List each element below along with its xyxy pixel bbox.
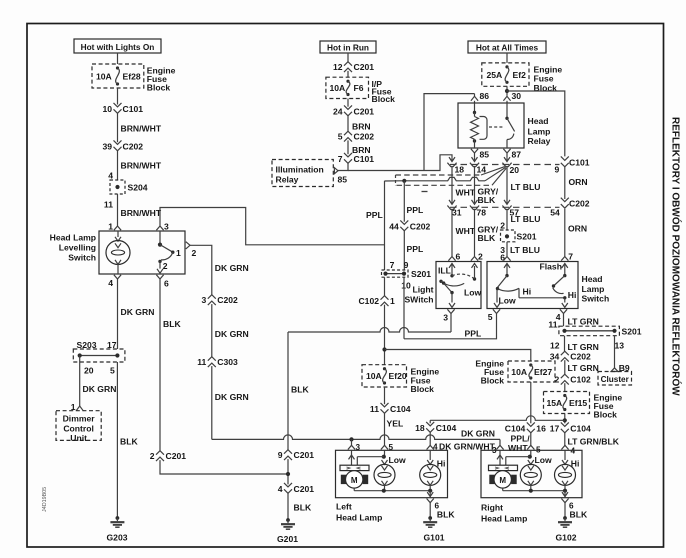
wire BLK <box>160 279 181 451</box>
wire <box>475 153 508 158</box>
pin 87 relay <box>503 149 521 160</box>
svg-text:Control: Control <box>63 423 94 433</box>
svg-text:C104: C104 <box>505 423 526 433</box>
svg-text:G102: G102 <box>555 532 576 542</box>
power tag Hot in Run <box>320 41 376 53</box>
svg-text:Hot at All Times: Hot at All Times <box>476 42 539 52</box>
pin 18 arrow <box>447 157 464 175</box>
connector C201 pin 12 <box>333 62 374 72</box>
splice S201 on LT BLU <box>500 221 537 256</box>
svg-text:Low: Low <box>499 296 516 306</box>
svg-text:4: 4 <box>278 484 283 494</box>
svg-text:BLK: BLK <box>570 509 588 519</box>
svg-text:Ef27: Ef27 <box>534 367 552 377</box>
svg-text:4: 4 <box>108 171 113 181</box>
svg-text:LT BLU: LT BLU <box>511 182 541 192</box>
wire PPL HLS pin 5 <box>404 314 497 339</box>
svg-text:G101: G101 <box>423 532 444 542</box>
fuse Ef20 10A <box>362 365 407 387</box>
cluster box <box>598 372 632 386</box>
svg-text:Lamp: Lamp <box>528 127 551 137</box>
head lamp levelling switch box <box>99 231 185 274</box>
svg-text:LT GRN: LT GRN <box>568 317 599 327</box>
label Right Head Lamp <box>481 502 527 523</box>
svg-text:LT GRN/BLK: LT GRN/BLK <box>568 436 620 446</box>
wire <box>160 208 385 245</box>
svg-text:C102: C102 <box>570 374 591 384</box>
svg-text:31: 31 <box>452 208 462 218</box>
svg-text:Low: Low <box>464 288 481 298</box>
pin 1 head lamp levelling switch <box>108 222 121 232</box>
svg-text:12: 12 <box>333 62 343 72</box>
wire <box>160 460 288 474</box>
pin B9 triangle <box>611 363 630 373</box>
pin 3 entry <box>156 222 169 232</box>
wire BLK to G203 <box>117 362 138 518</box>
wire BLK from light switch <box>288 332 309 450</box>
svg-text:BLK: BLK <box>120 437 138 447</box>
right head lamp box <box>481 450 582 497</box>
connector C104 pin 11 <box>370 403 411 414</box>
svg-text:SWitch: SWitch <box>404 295 433 305</box>
svg-text:3: 3 <box>164 222 169 232</box>
connector row C202 dashed <box>450 206 560 208</box>
wire <box>347 53 349 63</box>
svg-text:Hot in Run: Hot in Run <box>327 42 369 52</box>
svg-text:15A: 15A <box>547 398 563 408</box>
wire PPL/WHT <box>508 432 541 454</box>
svg-text:C104: C104 <box>390 404 411 414</box>
svg-text:85: 85 <box>338 174 348 184</box>
pin 5 left head lamp <box>381 443 394 452</box>
ground G102 <box>555 516 576 542</box>
wire LT GRN <box>565 360 599 374</box>
minus mark <box>422 191 428 193</box>
right levelling motor <box>489 450 518 490</box>
pin 4 exit <box>108 275 121 288</box>
svg-text:ORN: ORN <box>569 177 588 187</box>
svg-text:Block: Block <box>147 83 171 93</box>
svg-text:LT GRN: LT GRN <box>568 363 599 373</box>
svg-text:3: 3 <box>443 312 448 322</box>
svg-text:1: 1 <box>176 248 181 258</box>
svg-text:DK GRN: DK GRN <box>461 429 495 439</box>
svg-text:Relay: Relay <box>528 136 551 146</box>
wire DK GRN <box>212 366 249 439</box>
label Engine Fuse Block <box>147 66 176 93</box>
label Engine Fuse Block <box>411 366 440 394</box>
wire BRN/WHT <box>118 194 162 226</box>
svg-text:11: 11 <box>197 357 206 367</box>
svg-text:BRN/WHT: BRN/WHT <box>121 161 162 171</box>
wire PPL horizontal <box>385 177 486 181</box>
left low bulb <box>357 450 406 490</box>
connector C202 pin 34 <box>550 351 591 361</box>
svg-text:9: 9 <box>404 260 409 270</box>
svg-text:DK GRN: DK GRN <box>215 329 249 339</box>
svg-text:BLK: BLK <box>291 385 309 395</box>
pin 85 triangle <box>334 168 347 185</box>
svg-text:Relay: Relay <box>276 175 299 185</box>
svg-text:30: 30 <box>512 91 522 101</box>
svg-text:Head Lamp: Head Lamp <box>481 513 527 523</box>
pin 6 left head lamp <box>427 499 440 511</box>
svg-text:C201: C201 <box>354 62 375 72</box>
HLS low/high selector <box>494 264 567 308</box>
svg-text:11: 11 <box>104 200 113 210</box>
illumination relay box <box>272 160 333 187</box>
light switch contacts <box>439 264 481 308</box>
pin 30 head lamp relay <box>503 91 521 101</box>
svg-text:C101: C101 <box>569 157 590 167</box>
wire BRN <box>348 116 371 132</box>
svg-text:C303: C303 <box>217 357 238 367</box>
svg-text:BRN/WHT: BRN/WHT <box>121 124 162 134</box>
wire <box>117 53 119 64</box>
svg-text:DK GRN: DK GRN <box>121 307 155 317</box>
wire DK GRN to dimmer <box>80 356 117 407</box>
svg-text:LT BLU: LT BLU <box>510 245 540 255</box>
pin 2 light switch <box>471 251 483 261</box>
connector C104 pin 17 <box>550 422 591 433</box>
svg-text:18: 18 <box>455 165 465 175</box>
junction <box>563 418 567 422</box>
connector C201 pin 9 <box>278 450 315 460</box>
wire <box>564 414 566 424</box>
svg-text:Hi: Hi <box>571 458 580 468</box>
relay link dashed <box>489 126 504 128</box>
wire BLK <box>565 503 588 520</box>
connector C102 pin 1 <box>358 296 395 306</box>
wire LT BLU <box>507 209 540 230</box>
svg-text:S201: S201 <box>411 269 431 279</box>
wire <box>506 86 508 96</box>
wire DK GRN <box>118 279 155 349</box>
label Engine Fuse Block <box>475 358 504 385</box>
fuse Ef2 25A <box>482 63 529 86</box>
wire BRN/WHT <box>118 113 162 142</box>
svg-text:F6: F6 <box>354 83 364 93</box>
left lamp ground bus <box>354 489 433 498</box>
svg-text:Dimmer: Dimmer <box>63 414 96 424</box>
svg-text:Head: Head <box>528 116 549 126</box>
wire PPL column <box>404 181 423 222</box>
wire <box>287 459 289 484</box>
pin 86 head lamp relay <box>471 91 489 101</box>
pin 3 light switch <box>443 309 454 322</box>
fan line upper <box>481 167 505 175</box>
connector C201 pin 4 <box>278 483 315 494</box>
wire <box>347 71 349 77</box>
wire BRN <box>348 140 371 155</box>
svg-text:34: 34 <box>550 351 560 361</box>
pin 57 arrow <box>502 200 519 218</box>
fuse Ef27 10A <box>508 361 555 382</box>
svg-text:S201: S201 <box>622 326 642 336</box>
svg-text:10: 10 <box>401 280 411 290</box>
label Engine Fuse Block <box>594 392 623 419</box>
wire YEL <box>385 413 404 445</box>
wire <box>530 382 532 423</box>
wire from S201 pin 7 <box>384 277 386 296</box>
svg-text:Hi: Hi <box>437 458 446 468</box>
label Engine Fuse Block <box>534 64 563 92</box>
pin 3 right head lamp <box>496 445 503 449</box>
wire BRN/WHT <box>118 151 162 180</box>
svg-text:YEL: YEL <box>387 419 404 429</box>
wire LT GRN <box>548 314 598 330</box>
svg-text:C101: C101 <box>123 104 144 114</box>
pin 14 arrow <box>470 157 486 175</box>
svg-text:86: 86 <box>480 91 490 101</box>
svg-text:S201: S201 <box>517 232 537 242</box>
wire BLK <box>288 493 312 520</box>
label ILL <box>438 266 451 276</box>
pin 1 dimmer <box>71 402 83 412</box>
svg-text:M: M <box>499 476 506 485</box>
connector C202 pin 44 <box>389 220 430 231</box>
svg-text:C202: C202 <box>217 295 238 305</box>
svg-text:Ef28: Ef28 <box>123 71 141 81</box>
HLS flash contact <box>552 264 577 308</box>
svg-text:ORN: ORN <box>568 224 587 234</box>
svg-text:2: 2 <box>163 261 168 271</box>
svg-text:Levelling: Levelling <box>59 242 96 252</box>
svg-text:Switch: Switch <box>582 294 610 304</box>
label Light SWitch <box>404 285 433 305</box>
splice S203 <box>73 340 125 375</box>
svg-text:9: 9 <box>278 450 283 460</box>
svg-text:7: 7 <box>338 154 343 164</box>
svg-text:2: 2 <box>150 451 155 461</box>
wire PPL <box>404 231 423 270</box>
wire GRY/BLK <box>475 209 499 256</box>
svg-text:DK GRN: DK GRN <box>215 263 249 273</box>
dashed harness upper <box>396 174 482 176</box>
svg-text:Left: Left <box>336 501 352 511</box>
svg-text:M: M <box>351 476 358 485</box>
connector C104 pin 18 <box>415 422 456 433</box>
pin 6 exit <box>156 275 169 289</box>
wire to Ef27 <box>385 350 531 362</box>
connector C303 pin 11 <box>197 357 238 367</box>
svg-text:PPL: PPL <box>366 210 383 220</box>
svg-text:Hi: Hi <box>568 290 577 300</box>
ground G201 <box>277 518 298 544</box>
svg-text:20: 20 <box>510 165 520 175</box>
svg-text:2: 2 <box>192 248 197 258</box>
doc code vertical text <box>42 487 48 512</box>
wire DK GRN run <box>212 429 500 440</box>
svg-text:Head Lamp: Head Lamp <box>50 232 96 242</box>
junction <box>286 472 290 476</box>
page title vertical text <box>670 117 683 396</box>
svg-text:87: 87 <box>512 149 522 159</box>
svg-text:2: 2 <box>478 251 483 261</box>
svg-text:PPL: PPL <box>465 329 482 339</box>
splice S201 <box>382 260 432 291</box>
wire ORN <box>565 166 588 199</box>
wire <box>347 99 349 107</box>
connector row C101 dashed <box>450 164 560 166</box>
wire to illumination relay and relay 86 <box>338 155 452 171</box>
pin 85 relay <box>471 149 489 160</box>
svg-text:BLK: BLK <box>478 233 496 243</box>
wire <box>506 53 508 63</box>
svg-text:DK GRN: DK GRN <box>215 392 249 402</box>
svg-text:Light: Light <box>413 285 434 295</box>
wire BLK <box>430 503 455 520</box>
svg-text:11: 11 <box>370 404 379 414</box>
svg-text:Ef20: Ef20 <box>389 371 407 381</box>
label I/P Fuse Block <box>372 79 396 104</box>
svg-text:78: 78 <box>477 208 487 218</box>
wire ORN <box>565 209 587 256</box>
svg-text:Switch: Switch <box>68 252 96 262</box>
relay coil <box>471 103 488 148</box>
pin 6 head lamp switch <box>503 257 510 261</box>
splice S201 LT GRN <box>550 326 642 350</box>
pin 5 head lamp switch <box>488 309 500 322</box>
dashed harness lower <box>397 184 493 186</box>
wire LT BLU <box>507 166 540 203</box>
svg-text:20: 20 <box>84 365 94 375</box>
wire WHT <box>452 209 476 256</box>
power tag Hot with Lights On <box>74 39 161 53</box>
pin 6 right head lamp <box>561 499 574 511</box>
pin 3 left head lamp <box>348 443 361 452</box>
connector C202 pin 5 <box>338 131 375 141</box>
svg-text:9: 9 <box>555 165 560 175</box>
svg-text:2: 2 <box>500 221 505 231</box>
svg-text:7: 7 <box>568 251 573 261</box>
svg-text:C202: C202 <box>354 131 375 141</box>
left hi bulb <box>420 450 446 490</box>
wire ORN branch <box>507 91 565 156</box>
splice S204 <box>104 171 148 210</box>
pin 9 connector C101 <box>555 156 590 174</box>
svg-text:Low: Low <box>535 455 552 465</box>
light switch box <box>436 262 481 309</box>
fan line middle <box>485 167 506 180</box>
svg-text:6: 6 <box>456 251 461 261</box>
connector C102 pin 2 <box>555 374 592 384</box>
svg-text:5: 5 <box>488 312 493 322</box>
svg-text:C201: C201 <box>294 484 315 494</box>
junction <box>349 437 353 441</box>
svg-text:BLK: BLK <box>163 319 181 329</box>
label Head Lamp Relay <box>528 116 551 146</box>
svg-text:10A: 10A <box>511 367 527 377</box>
connector C101 pin 7 <box>338 153 375 164</box>
ground G203 <box>106 516 127 542</box>
left head lamp box <box>336 450 448 497</box>
svg-text:G201: G201 <box>277 534 298 544</box>
svg-text:BLK: BLK <box>437 509 455 519</box>
svg-text:BLK: BLK <box>294 503 312 513</box>
svg-text:PPL: PPL <box>407 205 424 215</box>
svg-text:10A: 10A <box>330 83 346 93</box>
wire to left lamp pin 3 <box>351 439 353 445</box>
dashed harness left cap <box>395 175 397 185</box>
wire <box>475 101 508 103</box>
svg-text:BRN/WHT: BRN/WHT <box>121 208 162 218</box>
head lamp relay box <box>458 103 524 148</box>
levelling switch bulb <box>106 231 130 274</box>
svg-text:Lamp: Lamp <box>582 284 605 294</box>
pin 4 left head lamp <box>427 445 434 449</box>
svg-text:WHT: WHT <box>456 188 476 198</box>
wire PPL vertical <box>366 181 385 270</box>
svg-text:24: 24 <box>333 106 343 116</box>
head lamp switch box <box>487 262 578 309</box>
wire <box>429 420 431 423</box>
label Flash <box>540 262 562 272</box>
svg-text:10A: 10A <box>96 71 112 81</box>
svg-text:1: 1 <box>108 222 113 232</box>
pin 5 right head lamp <box>527 445 534 449</box>
svg-text:Head: Head <box>582 274 603 284</box>
svg-text:PPL: PPL <box>407 244 424 254</box>
svg-text:C202: C202 <box>569 199 590 209</box>
label Head Lamp Switch <box>582 274 610 304</box>
pin 4 right head lamp <box>561 445 568 449</box>
svg-text:39: 39 <box>102 141 112 151</box>
svg-text:Hi: Hi <box>523 286 532 296</box>
svg-text:6: 6 <box>164 278 169 288</box>
wire BLK light switch pin 3 <box>288 314 451 333</box>
svg-text:C104: C104 <box>436 423 457 433</box>
wire WHT <box>452 166 476 203</box>
svg-text:LT BLU: LT BLU <box>511 214 541 224</box>
svg-text:Block: Block <box>372 94 396 104</box>
levelling switch selector <box>157 231 181 273</box>
pin 78 arrow <box>470 200 486 218</box>
wire LT BLU <box>500 242 540 263</box>
svg-text:Flash: Flash <box>540 262 562 272</box>
wire DK GRN <box>190 245 249 295</box>
connector C201 pin 2 <box>150 451 187 461</box>
svg-text:1: 1 <box>390 296 395 306</box>
svg-text:Ef2: Ef2 <box>513 70 527 80</box>
dimmer control unit box <box>56 411 101 443</box>
svg-text:WHT: WHT <box>456 226 476 236</box>
fan line lower <box>492 168 506 185</box>
svg-text:10A: 10A <box>366 371 382 381</box>
svg-text:Ef15: Ef15 <box>569 398 587 408</box>
label Head Lamp Levelling Switch <box>50 232 96 262</box>
svg-text:12: 12 <box>550 340 560 350</box>
junction to Ef27 feed <box>382 347 386 351</box>
svg-text:11: 11 <box>548 319 557 329</box>
svg-text:Block: Block <box>411 384 435 394</box>
connector C202 pin 3 <box>202 295 239 305</box>
svg-text:C201: C201 <box>354 106 375 116</box>
svg-text:Head Lamp: Head Lamp <box>336 512 382 522</box>
svg-text:3: 3 <box>202 295 207 305</box>
connector C201 pin 24 <box>333 105 374 116</box>
junction PPL <box>402 179 406 183</box>
pin 54 connector C202 <box>550 198 590 218</box>
wire DK GRN <box>212 304 249 357</box>
wire to 18 C104 <box>430 416 565 420</box>
connector C104 pin 16 <box>505 422 546 433</box>
pin 6 light switch <box>448 251 460 261</box>
power tag Hot at All Times <box>468 41 546 53</box>
svg-text:4: 4 <box>108 278 113 288</box>
svg-text:C101: C101 <box>354 154 375 164</box>
wire GRY/BLK <box>475 166 499 205</box>
